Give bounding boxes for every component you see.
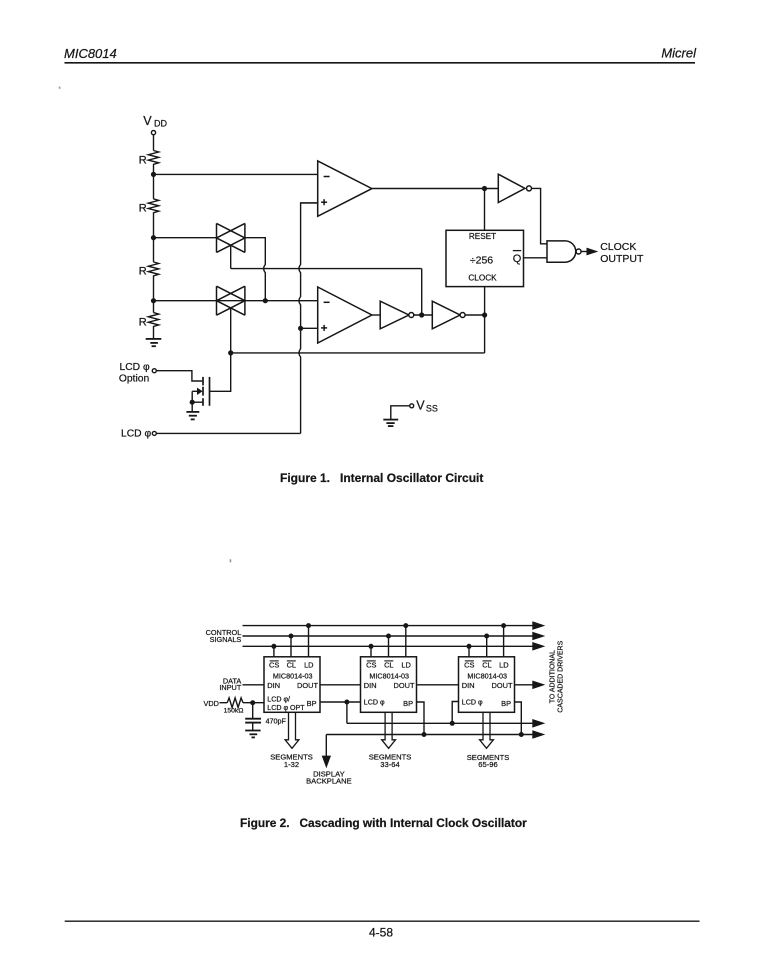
wire Q1 gate to TG2 control node <box>210 353 231 391</box>
wire U10 LD pin drop <box>308 626 310 657</box>
node TG1 output junction <box>263 298 268 303</box>
node U11 BP junction <box>422 732 427 737</box>
wire BP bus <box>326 734 533 736</box>
inverter U3 <box>498 174 531 202</box>
svg-text:MIC8014: MIC8014 <box>64 46 117 61</box>
LCD phi terminal <box>152 431 156 435</box>
wire U10 BP to U11 LCDphi <box>320 701 361 703</box>
svg-text:470pF: 470pF <box>266 717 287 726</box>
svg-text:65-96: 65-96 <box>478 760 497 769</box>
svg-text:LD: LD <box>499 660 508 669</box>
wire VSS to ground <box>391 406 410 420</box>
svg-text:TO ADDITIONAL: TO ADDITIONAL <box>550 650 557 703</box>
svg-text:R: R <box>139 203 147 215</box>
svg-text:DIN: DIN <box>364 681 377 690</box>
wire U11 CL pin drop <box>388 636 390 657</box>
Q1 body arrow <box>197 388 203 395</box>
node C junction <box>151 298 156 303</box>
wire U6 output <box>465 314 485 316</box>
resistor R3 <box>148 262 158 276</box>
svg-text:CL: CL <box>384 660 393 669</box>
svg-text:LCD φ/: LCD φ/ <box>267 696 290 704</box>
wire U10 DOUT to U11 DIN <box>320 684 361 686</box>
wire control line 2 <box>243 635 534 637</box>
nand gate U7 <box>547 241 576 262</box>
svg-text:V: V <box>416 398 425 412</box>
svg-text:CS: CS <box>464 660 474 669</box>
svg-text:LCD φ: LCD φ <box>121 429 151 440</box>
svg-text:DD: DD <box>154 119 167 129</box>
svg-text:BP: BP <box>403 699 413 708</box>
ground below R4 <box>146 339 162 346</box>
node Q1 source junction <box>190 400 195 405</box>
node U2 noninverting junction <box>298 326 303 331</box>
inverter U6 <box>432 301 465 329</box>
wire R2 to R3 <box>153 212 155 262</box>
wire LCD phi horizontal run <box>156 432 300 434</box>
wire R3 to R4 <box>153 275 155 312</box>
wire R5 to U10 LCDphi pin <box>243 702 264 704</box>
LCD phi Option terminal <box>152 369 156 373</box>
svg-text:LCD φ OPT: LCD φ OPT <box>267 704 305 712</box>
wire U6 junction down to feedback lower <box>484 315 486 353</box>
svg-text:CS: CS <box>269 660 279 669</box>
node U6 output junction <box>482 312 487 317</box>
svg-text:LCD φ: LCD φ <box>364 698 385 706</box>
svg-text:÷256: ÷256 <box>470 255 493 267</box>
wire U12 CS pin drop <box>468 646 470 657</box>
wire control line 3 <box>243 645 534 647</box>
svg-text:Figure 1. Internal Oscillato: Figure 1. Internal Oscillator Circuit <box>280 471 483 485</box>
wire U1 output <box>372 188 498 190</box>
wire node B to transmission gate TG1 <box>154 237 217 239</box>
svg-text:INPUT: INPUT <box>219 683 241 692</box>
ground below C1 <box>245 731 260 738</box>
wire VDD to R1 <box>153 135 155 151</box>
wire U5 output to U6 <box>414 314 433 316</box>
node U10 BP junction <box>344 700 349 705</box>
node U12 LCDphi junction <box>450 721 455 726</box>
node R5 capacitor junction <box>250 700 255 705</box>
svg-text:VDD: VDD <box>204 699 219 708</box>
wire U10 CS pin drop <box>273 646 275 657</box>
svg-text:OUTPUT: OUTPUT <box>600 253 644 265</box>
wire U11 CS pin drop <box>370 646 372 657</box>
wire U7 output <box>581 251 587 253</box>
U12 pin labels <box>464 660 508 669</box>
wire U1 noninverting input <box>301 202 318 204</box>
wire display backplane drop <box>325 735 327 757</box>
wire U10 CL pin drop <box>290 636 292 657</box>
segments arrow driver3 <box>480 712 494 748</box>
wire divider Q output to NAND lower input <box>524 257 548 259</box>
op-amp U2 comparator <box>318 287 372 343</box>
capacitor C1 470pF <box>252 703 254 719</box>
wire Q1 body lead <box>192 390 197 392</box>
svg-text:DIN: DIN <box>462 681 475 690</box>
wire U2 output <box>372 314 380 316</box>
wire U2 noninverting input <box>301 327 318 329</box>
resistor R1 <box>148 151 158 165</box>
node B junction <box>151 235 156 240</box>
svg-text:R: R <box>139 317 147 329</box>
divider U4 256 block <box>446 230 524 286</box>
wire TG2 control stub <box>230 308 232 353</box>
wire U12 LD pin drop <box>503 626 505 657</box>
svg-text:1-32: 1-32 <box>284 760 299 769</box>
scan speck mid page <box>230 559 232 562</box>
driver U12 block MIC8014-03 <box>459 657 515 713</box>
svg-text:BP: BP <box>307 699 317 708</box>
FIGURE 2 <box>206 621 546 748</box>
wire TG1 control stub <box>230 245 232 268</box>
svg-text:33-64: 33-64 <box>380 760 399 769</box>
node U5 output junction <box>419 312 424 317</box>
node TG2 control junction <box>228 350 233 355</box>
svg-text:CL: CL <box>287 660 296 669</box>
wire Q1 source lead <box>192 401 203 403</box>
U10 pin labels <box>269 660 313 669</box>
svg-text:CS: CS <box>366 660 376 669</box>
wire LCD phi vertical run with hops to comparator inputs <box>299 203 318 434</box>
wire node C to comparator U2 inverting input <box>154 300 318 302</box>
svg-text:CASCADED DRIVERS: CASCADED DRIVERS <box>557 640 564 712</box>
svg-text:DOUT: DOUT <box>394 681 415 690</box>
svg-text:MIC8014-03: MIC8014-03 <box>273 672 313 681</box>
transmission gate TG1 <box>217 223 245 252</box>
U11 pin labels <box>366 660 411 669</box>
svg-text:LCD φ: LCD φ <box>462 698 483 706</box>
segments arrow driver1 <box>285 712 299 748</box>
wire U10 BP junction down to phi bus <box>346 702 348 723</box>
FIGURE 1 <box>139 114 318 346</box>
VDD terminal <box>151 131 155 135</box>
wire U5 junction up to feedback upper <box>421 269 423 315</box>
wire TG1 output with hop over feedback line <box>245 238 265 301</box>
svg-text:Option: Option <box>119 374 150 385</box>
header rule <box>65 62 696 64</box>
wire data input to U10 DIN <box>243 684 265 686</box>
svg-text:150kΩ: 150kΩ <box>224 708 244 715</box>
svg-text:BACKPLANE: BACKPLANE <box>306 777 352 786</box>
wire feedback lower (TG2 control to inverter output) <box>231 352 485 354</box>
wire U12 CL pin drop <box>486 636 488 657</box>
svg-text:Figure 2. Cascading with Int: Figure 2. Cascading with Internal Clock … <box>240 816 527 830</box>
wire U11 DOUT to U12 DIN <box>417 684 459 686</box>
resistor R2 <box>148 199 158 213</box>
wire U11 BP jog down to BP bus <box>417 702 425 735</box>
svg-text:SS: SS <box>426 404 438 414</box>
svg-text:V: V <box>143 114 152 128</box>
to additional cascaded drivers label <box>550 640 565 712</box>
scan speck left margin <box>59 87 61 89</box>
transmission gate TG2 <box>217 286 245 315</box>
ground VSS <box>383 420 398 427</box>
svg-text:MIC8014-03: MIC8014-03 <box>369 672 409 681</box>
wire U12 LCDphi jog to phi bus <box>452 702 458 724</box>
svg-text:Micrel: Micrel <box>661 46 697 61</box>
driver U11 block MIC8014-03 <box>361 657 417 713</box>
node U12 BP junction <box>519 732 524 737</box>
wire U12 BP jog down to BP bus <box>515 702 522 735</box>
svg-text:DIN: DIN <box>267 681 280 690</box>
wire feedback upper (TG1 control to buffer output) <box>231 268 422 270</box>
wire phi bus <box>347 722 534 724</box>
resistor R5 150k <box>227 698 243 708</box>
wire U1 output to divider RESET <box>484 189 486 231</box>
ground below Q1 <box>186 412 199 420</box>
svg-text:4-58: 4-58 <box>369 926 393 940</box>
footer rule <box>65 920 700 922</box>
svg-text:RESET: RESET <box>469 232 496 241</box>
wire R4 to ground <box>153 326 155 339</box>
node A junction <box>151 172 156 177</box>
node U1 output junction <box>482 186 487 191</box>
svg-text:CLOCK: CLOCK <box>600 241 636 253</box>
svg-text:R: R <box>139 266 147 278</box>
wire Q1 body-source tie to ground <box>191 391 193 412</box>
driver U10 block MIC8014-03 <box>264 657 320 713</box>
svg-text:SIGNALS: SIGNALS <box>210 635 242 644</box>
svg-text:BP: BP <box>501 699 511 708</box>
display backplane arrow <box>322 756 331 769</box>
svg-text:LCD φ: LCD φ <box>120 362 150 373</box>
wire U3 output to NAND top input <box>532 188 548 243</box>
resistor R4 <box>148 313 158 327</box>
wire LCD phi Option to Q1 drain <box>156 371 202 381</box>
wire control line 1 <box>243 625 534 627</box>
wire R1 to R2 <box>153 164 155 199</box>
clock output arrow <box>587 248 599 256</box>
svg-text:DOUT: DOUT <box>297 681 318 690</box>
wire U12 DOUT to cascade arrow <box>515 684 534 686</box>
wire VDD to resistor R5 <box>220 702 228 704</box>
segments arrow driver2 <box>382 712 396 748</box>
svg-text:LD: LD <box>304 660 313 669</box>
svg-text:CL: CL <box>482 660 491 669</box>
transistor Q1 <box>203 377 210 406</box>
svg-text:Q: Q <box>513 253 522 265</box>
VSS terminal <box>410 404 414 408</box>
svg-text:LD: LD <box>401 660 410 669</box>
buffer U5 <box>380 301 414 329</box>
svg-text:DOUT: DOUT <box>492 681 513 690</box>
svg-text:MIC8014-03: MIC8014-03 <box>467 672 507 681</box>
svg-text:CLOCK: CLOCK <box>468 273 497 282</box>
wire node A to comparator U1 inverting input <box>154 173 318 175</box>
wire divider CLOCK input <box>484 287 486 315</box>
svg-text:R: R <box>139 155 147 167</box>
op-amp U1 comparator <box>318 161 372 216</box>
wire U11 LD pin drop <box>405 626 407 657</box>
